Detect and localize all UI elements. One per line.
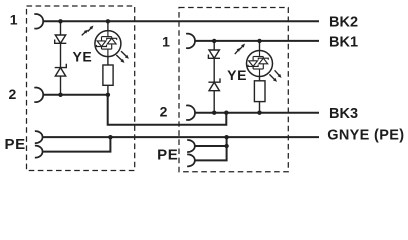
wire LED branch top left	[107, 21, 109, 30]
node: right zener on pin 1 wire	[212, 39, 216, 43]
node: left resistor on pin 2 wire	[106, 93, 110, 97]
wire suppressor branch right	[213, 41, 215, 50]
contact PE-a right	[187, 140, 195, 152]
node: right resistor on pin 2 wire	[257, 111, 261, 115]
svg-text:GNYE (PE): GNYE (PE)	[327, 128, 404, 144]
wire between zeners right	[213, 58, 215, 82]
svg-text:1: 1	[162, 33, 170, 49]
contact PE-a left	[35, 131, 43, 143]
wire right PE jumpers	[195, 137, 227, 160]
wire net BK1: right pin 1 to BK1	[195, 40, 319, 42]
node: left zener on pin 1 wire	[58, 19, 62, 23]
svg-text:BK3: BK3	[329, 106, 358, 122]
wire resistor bottom left	[107, 85, 109, 95]
node: right LED on pin 1 wire	[257, 39, 261, 43]
LED left emission arrows upper-left	[82, 28, 92, 36]
wire zener bottom left	[60, 76, 62, 95]
LED left (YE, dual antiparallel)	[95, 31, 121, 57]
contact pin 2 right	[186, 105, 195, 120]
LED right (YE, dual antiparallel)	[247, 51, 273, 77]
svg-text:2: 2	[160, 103, 168, 119]
node: right PE upper jumper	[224, 144, 228, 148]
resistor R1 left	[103, 65, 113, 85]
node: link on right pin 2 wire	[224, 111, 228, 115]
wire zener bottom right	[213, 91, 215, 113]
zener diode V1 left (cathode down)	[55, 35, 67, 43]
node: left LED on pin 1 wire	[106, 19, 110, 23]
svg-text:2: 2	[9, 86, 17, 102]
node: right zener on pin 2 wire	[212, 111, 216, 115]
svg-text:BK1: BK1	[329, 34, 358, 50]
svg-text:YE: YE	[227, 67, 247, 83]
node: left zener on pin 2 wire	[58, 93, 62, 97]
wire left PE lower jumper	[43, 137, 110, 151]
contact pin 1 right	[186, 34, 195, 49]
wire suppressor branch left	[60, 21, 62, 35]
wire LED branch top right	[259, 41, 261, 51]
wire left pin 2	[43, 94, 108, 96]
wire link left pin2 to right pin2	[108, 95, 227, 125]
svg-text:1: 1	[10, 11, 18, 27]
svg-text:PE: PE	[157, 147, 178, 164]
svg-text:PE: PE	[5, 136, 26, 153]
wire LED to resistor left	[107, 57, 109, 65]
wire net GNYE: left PE to GNYE (PE)	[43, 136, 319, 138]
LED left emission arrows lower-right	[116, 51, 126, 61]
connector housing outline (right, dashed)	[179, 8, 288, 172]
LED right emission arrows lower-right	[269, 70, 279, 79]
connector housing outline (left, dashed)	[27, 6, 135, 171]
zener diode V1 right (cathode down)	[208, 50, 220, 58]
zener diode V2 left (cathode up)	[55, 64, 67, 76]
zener diode V2 right (cathode up)	[208, 78, 220, 90]
wire right PE upper jumper	[195, 145, 227, 147]
wire net BK3: right pin 2 to BK3	[195, 112, 319, 114]
wire net BK2: left pin 1 to BK2	[43, 20, 319, 22]
svg-text:BK2: BK2	[329, 15, 358, 31]
svg-text:YE: YE	[73, 48, 93, 64]
node: right PE jumper on GNYE wire	[224, 135, 228, 139]
contact pin 1 left	[34, 14, 43, 29]
contact PE-b right	[187, 154, 195, 166]
resistor R2 right	[254, 81, 265, 102]
wire between zeners left	[60, 43, 62, 67]
LED right emission arrows upper-left	[235, 46, 243, 54]
contact pin 2 left	[34, 88, 43, 103]
wire LED to resistor right	[259, 77, 261, 81]
node: left PE jumper on GNYE wire	[108, 135, 112, 139]
contact PE-b left	[35, 146, 43, 158]
wire resistor bottom right	[259, 102, 261, 113]
